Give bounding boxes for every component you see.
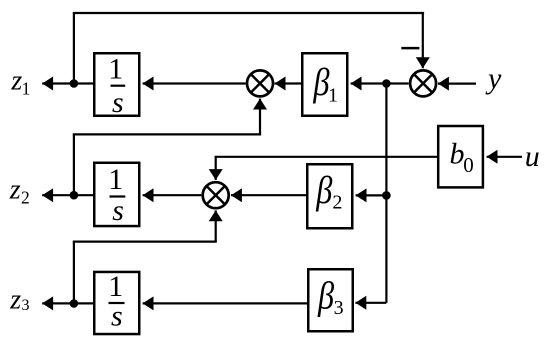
wire: innovation into beta2 (arrow) <box>356 194 387 196</box>
svg-text:1: 1 <box>108 270 123 303</box>
svg-text:u: u <box>525 140 540 173</box>
svg-text:3: 3 <box>334 297 344 319</box>
minus sign at S1R input <box>401 47 419 50</box>
svg-text:s: s <box>112 194 124 227</box>
svg-text:0: 0 <box>463 153 474 177</box>
svg-text:b: b <box>450 138 465 171</box>
svg-text:β: β <box>317 273 334 317</box>
svg-text:1: 1 <box>22 79 31 99</box>
label z2 <box>9 175 30 208</box>
node: junction dot row1 right <box>382 79 391 88</box>
wire: dot to integrator 2 <box>74 194 94 196</box>
wire: gain beta3 output to integrator 3 (arrow) <box>143 302 308 304</box>
wire: b0 feed drop into top of S2 (arrow down) <box>215 157 217 180</box>
wire: innovation vertical x=386 from row1 dot down to row3 elbow <box>385 84 387 303</box>
wire: z3 output arrow <box>42 302 74 304</box>
svg-text:2: 2 <box>332 192 342 214</box>
wire: summing junction S1L output to integrator 1 (arrow) <box>143 82 246 84</box>
svg-text:s: s <box>111 300 123 333</box>
wire: feedback from z2 into bottom of S1L (arrow up) <box>259 99 261 135</box>
summing junction S2 <box>203 182 229 208</box>
integrator block 1/s (row 1) <box>94 53 139 120</box>
wire: gain beta1 output into S1L (arrow) <box>275 82 302 84</box>
svg-text:β: β <box>313 60 330 104</box>
wire: top feedback vertical from node z1 up <box>73 13 75 84</box>
node: junction dot row3 left <box>70 299 79 308</box>
wire: z1 output arrow <box>42 82 74 84</box>
gain block beta2 <box>307 164 352 228</box>
block b0 <box>438 126 483 187</box>
svg-text:1: 1 <box>108 53 123 86</box>
svg-text:β: β <box>315 168 332 212</box>
label y <box>485 62 502 95</box>
wire: innovation elbow into beta3 (arrow) <box>355 302 386 304</box>
svg-text:z: z <box>10 66 22 97</box>
summing junction S1R <box>410 70 436 96</box>
wire: feedback horizontal y=132 <box>73 133 261 135</box>
label u <box>525 140 540 173</box>
wire: gain beta2 output into S2 (arrow) <box>231 194 307 196</box>
wire: z2 output arrow <box>42 194 74 196</box>
node: junction dot row2 left <box>70 191 79 200</box>
wire: y input arrow into S1R <box>438 82 476 84</box>
svg-text:z: z <box>9 175 21 206</box>
wire: u input arrow into b0 <box>487 156 522 158</box>
svg-text:1: 1 <box>328 85 338 107</box>
node: junction dot row2 right <box>382 191 391 200</box>
label z1 <box>10 66 30 99</box>
summing junction S1L <box>247 70 273 96</box>
node: junction dot row1 left <box>70 79 79 88</box>
svg-text:2: 2 <box>21 188 30 208</box>
wire: feedback horizontal y=238 <box>73 241 217 243</box>
wire: b0 feed horizontal into S2 <box>215 156 438 158</box>
wire: feedback vertical x=74 down to z3 node <box>73 242 75 304</box>
wire: feedback vertical x=74 down to z2 node <box>73 134 75 195</box>
svg-text:s: s <box>112 86 124 119</box>
svg-text:3: 3 <box>22 297 30 314</box>
wire: feedback from z3 into bottom of S2 (arrow up) <box>215 210 217 241</box>
integrator block 1/s (row 3) <box>94 270 139 334</box>
wire: top feedback horizontal <box>73 12 424 14</box>
wire: dot to integrator 1 <box>74 82 94 84</box>
wire: top feedback drop into summing junction S1R (arrow down) <box>422 13 424 68</box>
integrator block 1/s (row 2) <box>94 163 139 227</box>
wire: S1R output to beta1 (arrow) <box>351 82 409 84</box>
svg-text:y: y <box>485 62 502 95</box>
svg-text:z: z <box>9 284 21 315</box>
gain block beta3 <box>308 269 353 331</box>
wire: dot to integrator 3 <box>74 302 94 304</box>
wire: summing junction S2 output to integrator 2 (arrow) <box>143 194 202 196</box>
svg-text:1: 1 <box>108 163 123 196</box>
label z3 <box>9 284 29 315</box>
gain block beta1 <box>302 53 347 116</box>
